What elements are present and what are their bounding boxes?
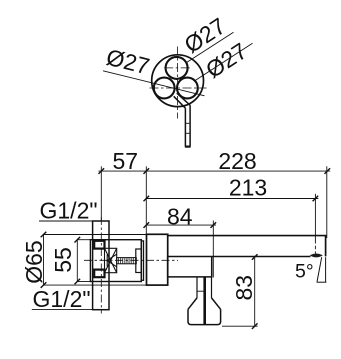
thread hatching	[119, 258, 136, 264]
tick 228 right	[325, 168, 331, 174]
spout bottom line	[168, 256, 311, 258]
lever center blade thick	[203, 277, 206, 324]
ring before plate	[141, 241, 143, 280]
dimension line 57/228	[99, 170, 331, 172]
wall plate side view	[147, 234, 168, 285]
tick 57 left	[99, 168, 105, 174]
bottom-left knob circle O27	[154, 78, 175, 99]
svg-text:G1/2": G1/2"	[40, 198, 98, 224]
tick O65 top	[41, 232, 47, 238]
extension line shared at x146.3	[145, 166, 147, 234]
svg-text:84: 84	[167, 204, 193, 230]
extension line O65 bottom	[44, 284, 147, 286]
top knob circle O27	[166, 57, 188, 79]
dimension O65 vertical line	[43, 235, 45, 286]
cartridge collar rect	[136, 249, 142, 273]
G1/2 top underline leader	[39, 220, 109, 222]
svg-text:Ø27: Ø27	[104, 44, 152, 80]
svg-text:5°: 5°	[295, 261, 314, 283]
leader line top-right O27	[186, 32, 234, 63]
port centerline dash-dot	[100, 217, 102, 314]
lever bar joint ticks	[185, 122, 191, 124]
tick 83 bottom	[252, 323, 258, 329]
extension line 228 right	[326, 166, 328, 238]
upper G1/2 socket	[94, 241, 104, 249]
lever stem tick	[197, 290, 205, 292]
tick 84 left	[144, 222, 150, 228]
in-wall body rectangle	[90, 240, 141, 282]
lever cone right	[212, 298, 221, 309]
lower G1/2 socket	[94, 270, 104, 278]
tick 84 right	[211, 222, 217, 228]
svg-text:228: 228	[218, 148, 256, 174]
extension line 84 right	[212, 221, 214, 278]
valve cone	[107, 254, 117, 267]
angle line tilted	[317, 257, 322, 282]
valve X diagonals	[105, 248, 117, 272]
leader line right O27	[194, 43, 253, 81]
lever stem left	[196, 277, 198, 298]
angle line vertical	[325, 257, 327, 282]
housing under spout	[168, 257, 212, 277]
horizontal centerline bottom circles	[150, 87, 207, 89]
bottom-right knob circle O27	[177, 78, 198, 99]
supply port column	[93, 221, 109, 310]
dimension 55 vertical line	[76, 240, 78, 282]
tick 83 top	[252, 254, 258, 260]
extension line 213 right	[314, 194, 316, 240]
dimension line 213	[146, 198, 318, 200]
valve seat box with X	[105, 248, 117, 272]
lever stem right	[211, 277, 213, 298]
tick 213 right	[313, 196, 319, 202]
spout top line	[168, 235, 327, 237]
tick 57/228 middle	[144, 168, 150, 174]
svg-text:Ø65: Ø65	[21, 240, 47, 283]
G1/2 bottom underline leader	[32, 309, 109, 311]
extension line 55 bottom	[77, 281, 90, 283]
svg-text:55: 55	[50, 247, 76, 273]
svg-text:57: 57	[113, 148, 139, 174]
vertical centerline	[177, 47, 179, 119]
dimension line 84	[146, 224, 216, 226]
lever handle front view: vertical bar	[184, 108, 186, 146]
extension line O65 top	[44, 234, 147, 236]
svg-text:G1/2": G1/2"	[33, 286, 91, 312]
lever handle front view: angled neck	[174, 96, 186, 108]
tick O65 bottom	[41, 282, 47, 288]
extension line 213 dashed through spout	[314, 240, 316, 254]
horizontal centerline top circle	[164, 67, 190, 69]
svg-text:83: 83	[231, 275, 257, 301]
angle arrows lens	[310, 253, 323, 257]
dimension line 83 vertical	[254, 257, 256, 326]
lever skirt outline	[188, 309, 221, 324]
threaded stem band	[117, 258, 137, 264]
extension line 57 left	[100, 166, 102, 221]
lever bar bottom cap	[185, 146, 191, 148]
lever cone left	[188, 298, 197, 309]
extension line 83 bottom	[222, 325, 258, 327]
wall plate circle (front view, O65)	[152, 55, 204, 107]
tip bottom connector	[317, 281, 327, 283]
spout tip face	[325, 236, 327, 257]
tick 55 bottom	[75, 279, 81, 285]
tick 55 top	[75, 237, 81, 243]
tick 213 left	[144, 196, 150, 202]
svg-text:213: 213	[229, 175, 267, 201]
horizontal centerline side view	[84, 259, 178, 261]
extension line 55 top	[77, 239, 90, 241]
leader line left O27	[103, 71, 205, 96]
